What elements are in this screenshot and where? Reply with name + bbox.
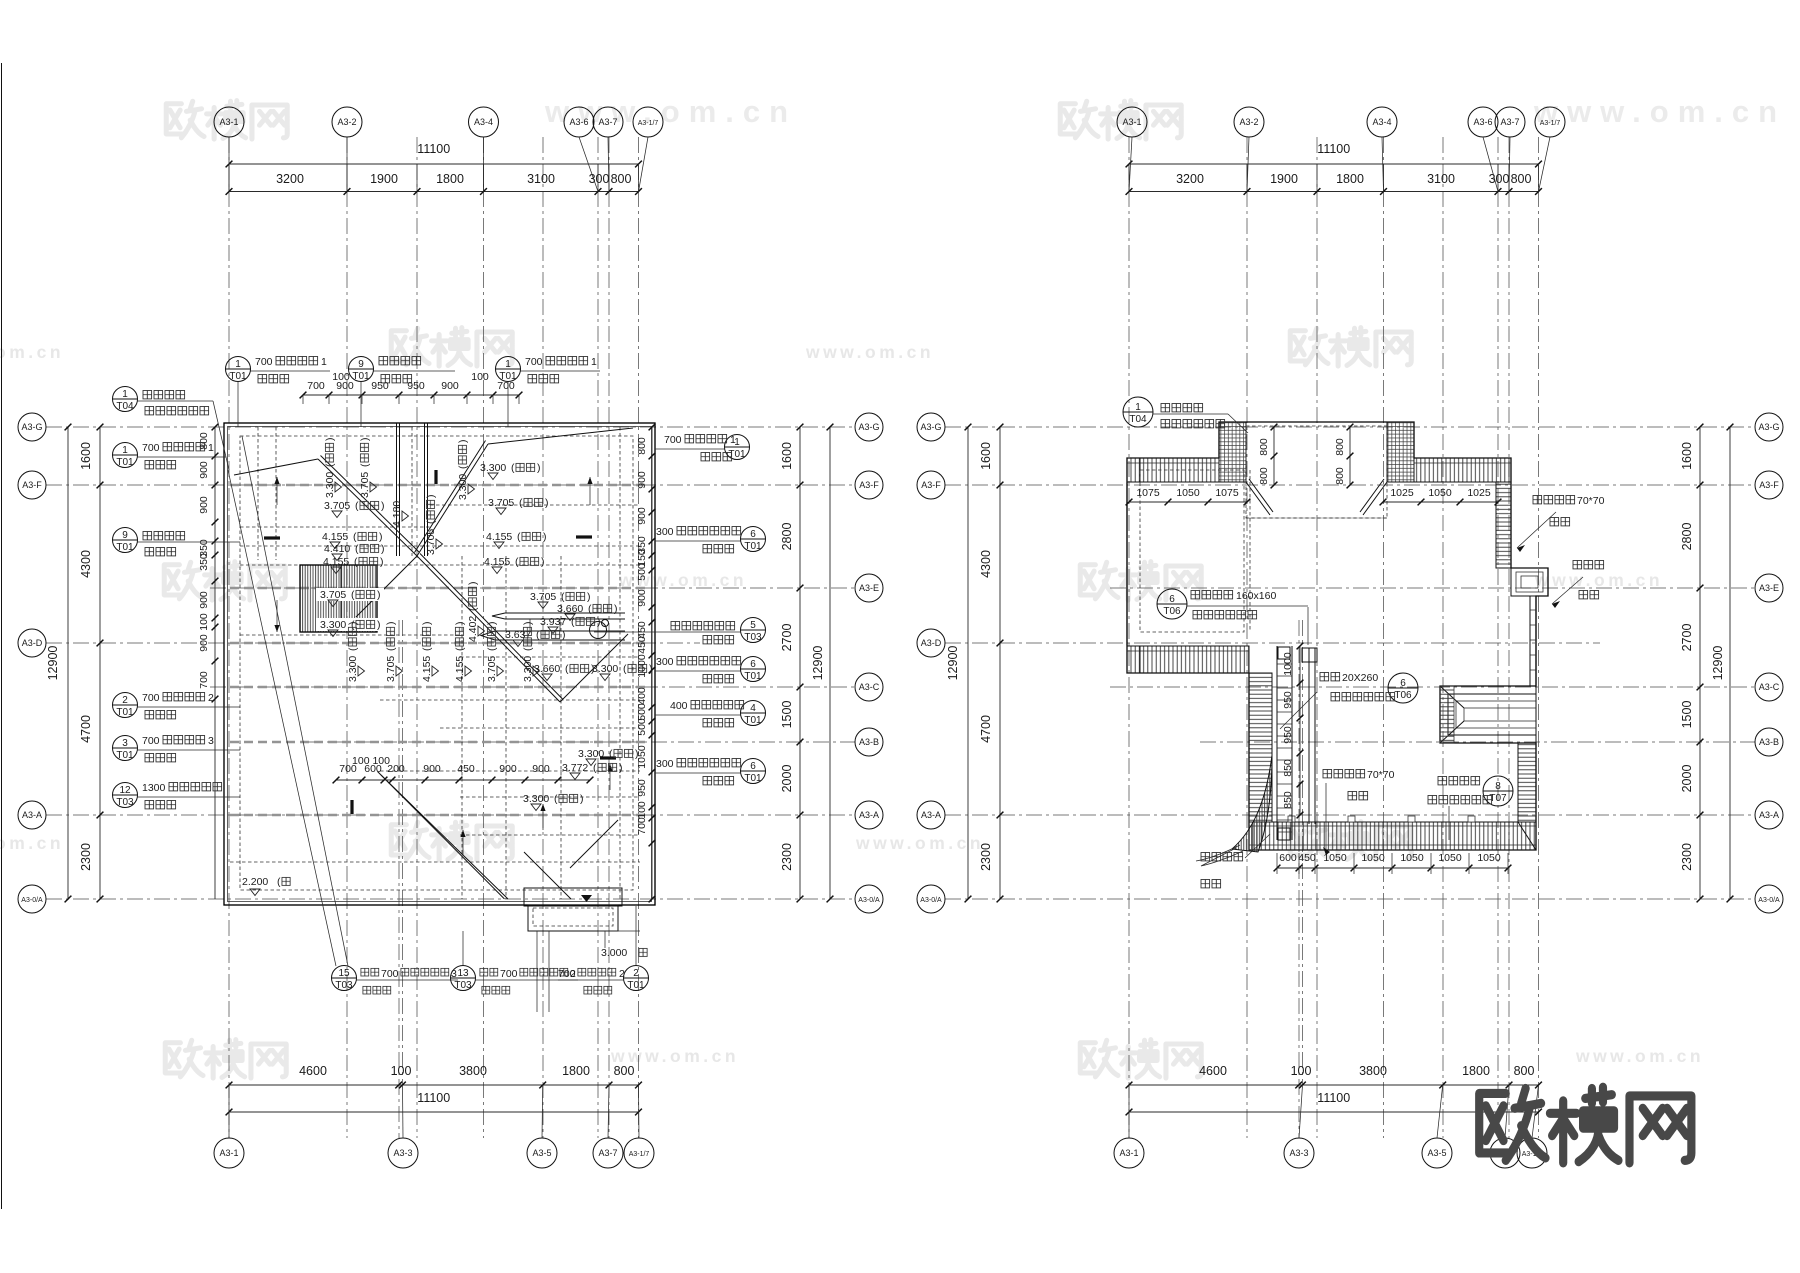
svg-text:100: 100 [391,1064,412,1078]
callout 12/T03 left [113,783,138,808]
svg-text:2300: 2300 [1680,843,1694,871]
svg-text:800: 800 [1258,438,1270,456]
svg-text:T01: T01 [499,371,517,382]
svg-text:450: 450 [636,621,648,639]
svg-text:A3-1/7: A3-1/7 [638,120,659,127]
svg-text:T01: T01 [116,750,134,761]
svg-text:450: 450 [636,636,648,654]
svg-text:A3-1: A3-1 [219,117,238,127]
top small dim string above dormer [303,394,519,396]
svg-text:1: 1 [122,389,128,400]
svg-text:A3-5: A3-5 [1427,1148,1446,1158]
svg-text:T06: T06 [1163,606,1181,617]
right inner fine dim column [651,427,653,899]
corner beam curved fan [1232,755,1272,852]
svg-text:): ) [425,495,437,499]
callout 9/T01 left [113,528,138,553]
svg-text:500: 500 [636,703,648,721]
svg-text:3.705: 3.705 [425,529,437,555]
svg-text:1050: 1050 [1400,852,1424,864]
svg-text:1900: 1900 [1270,172,1298,186]
right roof plan outer boundary [1127,422,1548,850]
right callout 6/T01 c [741,759,766,784]
svg-text:T04: T04 [116,401,134,412]
svg-text:4600: 4600 [1199,1064,1227,1078]
top dimension lines panel dx=0 [229,163,639,165]
bottom axis bubbles panel dx=0 [214,1138,244,1168]
svg-text:1600: 1600 [1680,442,1694,470]
svg-text:1: 1 [591,356,597,368]
svg-text:400: 400 [670,700,688,712]
svg-text:700: 700 [664,434,682,446]
svg-text:4.155: 4.155 [322,531,348,543]
svg-text:1: 1 [321,356,327,368]
left side dimension columns panel dx=900 [999,427,1001,899]
callout 6/T06 huaban [1388,673,1418,703]
svg-text:100: 100 [332,371,350,383]
top-right eave hatched band [1414,458,1511,482]
svg-text:(: ( [623,663,627,675]
svg-text:(: ( [609,748,613,760]
right callout 6/T01 a [741,527,766,552]
callout 8/T07 bracket [1483,776,1513,806]
svg-text:A3-7: A3-7 [598,117,617,127]
svg-text:T01: T01 [116,707,134,718]
svg-text:A3-7: A3-7 [1500,117,1519,127]
svg-text:): ) [543,531,547,543]
big dark watermark OMU logo bottom-right [1479,1087,1691,1163]
svg-text:(: ( [425,520,437,524]
svg-text:100: 100 [471,371,489,383]
svg-text:): ) [562,629,566,641]
levels over hatch (white backed) [316,588,384,601]
svg-text:700: 700 [381,968,399,980]
svg-text:(: ( [511,462,515,474]
svg-text:): ) [421,622,433,626]
ornamental plank strip (huaban) [1276,646,1278,840]
svg-text:1800: 1800 [436,172,464,186]
svg-text:500: 500 [636,563,648,581]
svg-text:T03: T03 [116,797,134,808]
bottom eave hatched band [1249,822,1536,850]
svg-text:950: 950 [1282,691,1294,709]
svg-text:3.705: 3.705 [385,656,397,682]
svg-text:www.om.cn: www.om.cn [855,833,984,853]
left side axis bubbles panel dx=0 [18,413,46,441]
svg-text:1050: 1050 [1176,487,1200,499]
svg-text:3: 3 [122,738,128,749]
svg-text:A3-3: A3-3 [393,1148,412,1158]
svg-text:3.300: 3.300 [347,656,359,682]
svg-text:800: 800 [1514,1064,1535,1078]
svg-text:): ) [537,462,541,474]
svg-text:1050: 1050 [1428,487,1452,499]
svg-text:3.660: 3.660 [534,663,560,675]
sheet left edge line [1,63,3,1209]
svg-text:800: 800 [636,437,648,455]
svg-text:T01: T01 [744,541,762,552]
right mid edge double line [1529,596,1531,686]
svg-text:3.300: 3.300 [523,793,549,805]
svg-text:950: 950 [636,779,648,797]
interior vertical dim chain 1000/950/950/850/850 [1299,646,1301,815]
svg-text:3.000: 3.000 [601,947,627,959]
svg-text:11100: 11100 [1317,1091,1350,1105]
svg-text:A3-4: A3-4 [1372,117,1391,127]
svg-text:): ) [377,589,381,601]
svg-text:T04: T04 [1129,414,1147,425]
svg-text:1600: 1600 [979,442,993,470]
callout 1/T01 left [113,443,138,468]
svg-text:350: 350 [198,553,210,571]
svg-text:1050: 1050 [636,745,648,769]
svg-text:6: 6 [750,529,756,540]
svg-text:3200: 3200 [276,172,304,186]
svg-text:1300: 1300 [142,782,166,794]
svg-text:2.200: 2.200 [242,876,268,888]
svg-text:3.705: 3.705 [486,656,498,682]
thin dashed purlins horizontal [240,545,640,547]
svg-text:20X260: 20X260 [1342,672,1378,684]
svg-text:www.om.cn: www.om.cn [0,342,64,362]
svg-text:300: 300 [656,656,674,668]
top axis bubbles panel dx=0 [214,107,244,137]
svg-text:www.om.cn: www.om.cn [610,1046,739,1066]
svg-text:950: 950 [1282,726,1294,744]
svg-text:(: ( [355,543,359,555]
svg-text:A3-0/A: A3-0/A [21,897,43,904]
right callout 1/T01 [725,435,750,460]
svg-text:700: 700 [142,692,160,704]
svg-text:A3-G: A3-G [1758,422,1779,432]
svg-text:900: 900 [636,471,648,489]
svg-text:2000: 2000 [780,765,794,793]
svg-text:A3-C: A3-C [859,682,880,692]
svg-text:T03: T03 [454,980,472,991]
svg-text:4.180: 4.180 [391,501,403,527]
svg-text:1: 1 [730,434,736,446]
svg-text:1025: 1025 [1390,487,1414,499]
svg-text:3.300: 3.300 [324,472,336,498]
svg-text:3.300: 3.300 [457,474,469,500]
svg-text:2700: 2700 [780,624,794,652]
svg-text:3.705: 3.705 [324,500,350,512]
svg-text:T01: T01 [116,542,134,553]
svg-text:2: 2 [633,968,639,979]
svg-text:450: 450 [457,763,475,775]
svg-text:): ) [597,616,601,628]
svg-text:): ) [614,603,618,615]
svg-text:900: 900 [198,634,210,652]
svg-text:900: 900 [198,461,210,479]
svg-text:(: ( [486,647,498,651]
svg-text:900: 900 [636,507,648,525]
svg-text:1: 1 [235,359,241,370]
svg-text:(: ( [571,616,575,628]
svg-text:3.705: 3.705 [359,472,371,498]
svg-text:4.155: 4.155 [323,556,349,568]
svg-text:A3-5: A3-5 [532,1148,551,1158]
left roof framing plan outline [224,423,655,905]
svg-text:2: 2 [122,695,128,706]
svg-text:3.772: 3.772 [562,762,588,774]
callout 3/T01 left [113,736,138,761]
svg-text:A3-F: A3-F [921,480,941,490]
bottom callout 13/T03 [451,966,476,991]
svg-text:12900: 12900 [811,646,825,681]
right callout 4/T01 [741,701,766,726]
svg-text:6: 6 [750,761,756,772]
svg-text:2: 2 [208,692,214,704]
left tall eave band of lower wing [1249,673,1272,822]
svg-text:1500: 1500 [1680,701,1694,729]
svg-text:A3-1/7: A3-1/7 [629,1151,650,1158]
svg-text:800: 800 [611,172,632,186]
svg-text:600: 600 [1279,852,1297,864]
right lower eave band [1518,743,1536,822]
svg-text:1: 1 [1135,402,1141,413]
svg-text:900: 900 [636,589,648,607]
svg-text:1000: 1000 [1282,652,1294,676]
svg-text:): ) [381,500,385,512]
svg-text:12900: 12900 [46,646,60,681]
svg-text:T01: T01 [229,371,247,382]
svg-text:1050: 1050 [1477,852,1501,864]
svg-text:T03: T03 [744,632,762,643]
svg-text:4.402: 4.402 [467,616,479,642]
chimney notch nested frames [1440,686,1536,743]
svg-text:(: ( [519,497,523,509]
svg-text:(: ( [565,663,569,675]
svg-text:3.300: 3.300 [480,462,506,474]
svg-text:): ) [377,619,381,631]
svg-text:13: 13 [457,968,469,979]
svg-text:A3-C: A3-C [1759,682,1780,692]
callout 1/T04 (top-left) [113,387,138,412]
entrance canopy rails [505,612,625,614]
svg-text:T06: T06 [1394,690,1412,701]
svg-text:A3-G: A3-G [21,422,42,432]
svg-text:(: ( [359,463,371,467]
svg-text:www.om.cn: www.om.cn [0,833,64,853]
dormer 800 dims [1273,427,1275,485]
svg-text:(: ( [351,589,355,601]
svg-text:1900: 1900 [370,172,398,186]
svg-text:A3-B: A3-B [859,737,879,747]
svg-text:850: 850 [1282,791,1294,809]
svg-text:A3-A: A3-A [1759,810,1779,820]
svg-text:(: ( [522,647,534,651]
svg-text:(: ( [517,531,521,543]
svg-text:4300: 4300 [79,550,93,578]
svg-text:): ) [619,762,623,774]
svg-text:): ) [359,438,371,442]
svg-text:1: 1 [208,442,214,454]
gable bracket (bofengban) [1511,568,1548,596]
svg-text:70*70: 70*70 [1367,769,1395,781]
svg-text:): ) [324,438,336,442]
svg-text:4.155: 4.155 [421,656,433,682]
svg-text:A3-G: A3-G [858,422,879,432]
right side dimension columns panel dx=900 [1699,427,1701,899]
top axis bubbles panel dx=900 [1117,107,1147,137]
bottom axis bubbles panel dx=900 [1114,1138,1144,1168]
svg-text:300: 300 [656,758,674,770]
callout 6/T06 wood column [1157,589,1187,619]
dormer inner dashed footprint [1246,426,1387,518]
svg-text:1600: 1600 [780,442,794,470]
top callout 1/T01 (right) [496,357,521,382]
svg-text:3100: 3100 [527,172,555,186]
svg-text:(: ( [467,607,479,611]
svg-text:1050: 1050 [1438,852,1462,864]
bottom callout 2/T01 [624,966,649,991]
svg-text:A3-0/A: A3-0/A [920,897,942,904]
svg-text:(: ( [593,762,597,774]
svg-text:4: 4 [750,703,756,714]
svg-text:T01: T01 [352,371,370,382]
svg-text:3.300: 3.300 [578,748,604,760]
svg-text:2300: 2300 [780,843,794,871]
svg-text:A3-F: A3-F [859,480,879,490]
svg-text:1800: 1800 [562,1064,590,1078]
svg-text:A3-1/7: A3-1/7 [1540,120,1561,127]
svg-text:): ) [467,582,479,586]
svg-text:1050: 1050 [1361,852,1385,864]
svg-text:): ) [380,556,384,568]
svg-text:3.705: 3.705 [530,591,556,603]
svg-text:3: 3 [208,735,214,747]
svg-text:11100: 11100 [1317,142,1350,156]
svg-text:700: 700 [525,356,543,368]
svg-text:12900: 12900 [1711,646,1725,681]
svg-text:(: ( [324,463,336,467]
svg-text:900: 900 [198,591,210,609]
svg-text:800: 800 [1258,467,1270,485]
svg-text:700: 700 [636,817,648,835]
svg-text:8: 8 [1495,781,1501,792]
svg-text:(: ( [561,591,565,603]
svg-text:): ) [486,622,498,626]
svg-text:A3-B: A3-B [1759,737,1779,747]
svg-text:(: ( [515,556,519,568]
svg-text:www.om.cn: www.om.cn [805,342,934,362]
svg-text:www.om.cn: www.om.cn [1575,1046,1704,1066]
svg-text:A3-F: A3-F [22,480,42,490]
svg-text:A3-F: A3-F [1759,480,1779,490]
svg-text:): ) [347,622,359,626]
slope arrows [276,477,278,505]
hatched chimney block [300,565,377,632]
dormer parapet blocks [1219,422,1246,482]
svg-text:www.om.cn: www.om.cn [1534,570,1663,590]
thin dashed purlins vertical [257,427,259,560]
svg-text:(: ( [588,603,592,615]
bottom dim string 600/450/1050x5 [1277,867,1508,869]
central wall double line [1308,648,1310,824]
svg-text:A3-E: A3-E [1759,583,1779,593]
section cut bold marks [264,536,280,539]
svg-text:A3-0/A: A3-0/A [1758,897,1780,904]
svg-text:A3-2: A3-2 [337,117,356,127]
svg-text:700: 700 [255,356,273,368]
svg-text:4.155: 4.155 [486,531,512,543]
svg-text:A3-D: A3-D [921,638,942,648]
svg-text:2800: 2800 [780,523,794,551]
svg-text:): ) [379,531,383,543]
svg-text:1075: 1075 [1215,487,1239,499]
svg-text:(: ( [347,647,359,651]
svg-text:A3-A: A3-A [921,810,941,820]
svg-text:4700: 4700 [979,715,993,743]
svg-text:3.705: 3.705 [320,589,346,601]
top callout 1/T01 [226,357,251,382]
svg-text:1800: 1800 [1336,172,1364,186]
lower-left eave band (pi yan) [1127,646,1249,673]
svg-text:100: 100 [198,613,210,631]
svg-text:900: 900 [499,763,517,775]
interior dim string y770 [336,779,590,781]
svg-text:700: 700 [198,671,210,689]
svg-text:11100: 11100 [417,1091,450,1105]
svg-text:3.300: 3.300 [320,619,346,631]
callout 2/T01 left [113,693,138,718]
svg-text:6: 6 [1400,678,1406,689]
svg-text:www.om.cn: www.om.cn [1533,94,1786,129]
svg-text:): ) [580,793,584,805]
svg-text:A3-A: A3-A [859,810,879,820]
bottom bump / porch [524,888,622,906]
svg-text:800: 800 [614,1064,635,1078]
svg-text:A3-6: A3-6 [1473,117,1492,127]
svg-text:4.410: 4.410 [324,543,350,555]
svg-text:12900: 12900 [946,646,960,681]
svg-text:A3-1: A3-1 [1119,1148,1138,1158]
right callout 5/T03 [741,618,766,643]
svg-text:(: ( [536,629,540,641]
left side axis bubbles panel dx=900 [917,413,945,441]
top-left eave hatched band [1127,458,1219,482]
inner dashed wall lines [240,436,633,890]
svg-text:3.705: 3.705 [488,497,514,509]
right side axis bubbles panel dx=0 [855,413,883,441]
svg-text:(: ( [385,647,397,651]
svg-text:400: 400 [636,687,648,705]
right upper eave band [1496,482,1511,568]
svg-text:): ) [457,440,469,444]
horizontal axis grid lines panel dx=0 [46,426,855,428]
label bofengban [1572,559,1605,570]
svg-text:(: ( [355,500,359,512]
svg-text:(: ( [421,647,433,651]
svg-text:A3-G: A3-G [920,422,941,432]
callout 1/T04 right panel [1123,397,1153,427]
svg-text:3.300: 3.300 [522,656,534,682]
purlin lines (bold gray dashed) [230,484,650,486]
svg-text:700: 700 [142,442,160,454]
svg-text:700: 700 [500,968,518,980]
svg-text:9: 9 [122,530,128,541]
svg-text:6: 6 [750,659,756,670]
vertical axis grid lines panel dx=0 [228,137,230,1138]
svg-text:4.155: 4.155 [454,656,466,682]
svg-text:800: 800 [1511,172,1532,186]
svg-text:(: ( [277,876,281,888]
svg-text:1800: 1800 [1462,1064,1490,1078]
svg-text:3.660: 3.660 [557,603,583,615]
svg-text:A3-4: A3-4 [474,117,493,127]
svg-text:900: 900 [441,380,459,392]
